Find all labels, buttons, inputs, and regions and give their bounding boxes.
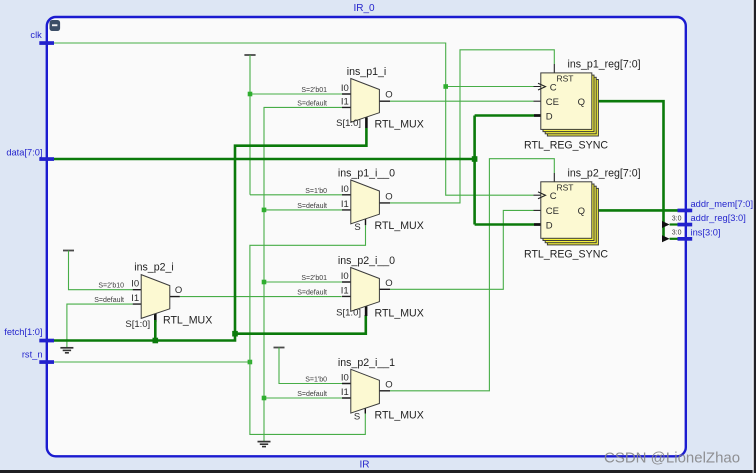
svg-text:S[1:0]: S[1:0] [336,307,361,318]
wire mux4 O to reg2 RST [390,159,554,391]
wire mux2 O to reg1 RST [390,50,554,203]
junction fetch bus corner [232,331,238,337]
register ins_p2_reg[7:0] [524,167,641,260]
port data[7:0] [6,147,54,161]
svg-text:Q: Q [578,97,585,108]
svg-text:addr_reg[3:0]: addr_reg[3:0] [691,213,746,223]
svg-text:ins_p1_i: ins_p1_i [347,66,386,78]
wire rst_n select route to mux2 S and mux4 S [250,225,366,434]
port addr_reg[3:0] [678,213,746,226]
mux ins_p1_i [297,66,424,131]
svg-text:RTL_REG_SYNC: RTL_REG_SYNC [524,139,608,151]
wire mux1 O to reg1 CE [390,100,541,102]
junction B at mux4 I1 [262,396,267,401]
wire data[7:0] bus [54,116,541,225]
svg-text:clk: clk [30,30,42,40]
wire rst_n [54,361,250,363]
module boundary IR_0 [47,17,686,456]
port fetch[1:0] [4,327,54,342]
svg-text:O: O [175,285,182,296]
mux ins_p2_i__0 [297,255,424,320]
svg-text:CE: CE [546,206,559,217]
wire ins_p2_i I1 to ground [67,304,133,347]
svg-text:I1: I1 [341,285,349,296]
svg-text:I0: I0 [341,271,349,282]
junction B at mux2 I1 [262,208,267,213]
svg-text:D: D [546,111,553,122]
svg-text:I0: I0 [341,184,349,195]
power T1 constant [244,54,255,56]
port rst_n [22,350,54,364]
svg-text:S[1:0]: S[1:0] [125,319,150,330]
wire reg2 Q bus to addr_mem [592,209,679,212]
wire default net (vertical B to ground) [264,107,342,441]
svg-text:RST: RST [557,74,574,84]
junction rst_n to select route [248,360,253,365]
svg-text:RTL_MUX: RTL_MUX [375,119,424,131]
svg-text:ins_p2_i__0: ins_p2_i__0 [338,255,395,267]
junction B at mux3 I0 [262,280,267,285]
svg-text:S: S [354,222,360,233]
svg-text:I1: I1 [131,293,139,304]
svg-text:IR_0: IR_0 [353,3,375,14]
svg-text:S=default: S=default [297,391,327,398]
wire clk net [54,43,541,195]
port clk [30,30,54,45]
svg-text:S=default: S=default [297,100,327,107]
svg-text:I0: I0 [341,373,349,384]
mux ins_p1_i__0 [297,168,424,233]
svg-text:ins_p1_i__0: ins_p1_i__0 [338,168,395,180]
wire mux3 O to reg2 CE [390,210,541,289]
svg-text:I1: I1 [341,97,349,108]
svg-text:ins_p2_i: ins_p2_i [134,261,173,273]
svg-text:O: O [385,379,392,390]
svg-text:CSDN @LionelZhao: CSDN @LionelZhao [604,450,740,467]
svg-text:Q: Q [578,206,585,217]
svg-text:I0: I0 [341,83,349,94]
svg-text:rst_n: rst_n [22,350,43,360]
power T2 constant [63,250,74,252]
svg-text:3:0: 3:0 [672,215,682,222]
port addr_mem[7:0] [678,199,754,213]
wire reg1 Q bus [592,101,664,241]
svg-text:O: O [385,90,392,101]
port ins[3:0] [678,228,721,241]
svg-text:fetch[1:0]: fetch[1:0] [4,327,42,337]
svg-text:RST: RST [557,183,574,193]
svg-text:S[1:0]: S[1:0] [336,118,361,129]
ground GND2 [258,442,271,447]
svg-text:C: C [550,191,557,202]
svg-text:IR: IR [360,460,370,471]
svg-text:S=2'b01: S=2'b01 [301,275,327,282]
svg-text:C: C [550,82,557,93]
svg-text:RTL_REG_SYNC: RTL_REG_SYNC [524,248,608,260]
ground GND1 [60,348,73,353]
svg-text:ins[3:0]: ins[3:0] [691,228,721,238]
right edge divider [753,0,756,473]
svg-text:ins_p2_i__1: ins_p2_i__1 [338,357,395,369]
junction data bus to register D [472,156,478,162]
svg-text:addr_mem[7:0]: addr_mem[7:0] [691,199,754,209]
power T3 constant [274,347,285,349]
svg-text:CE: CE [546,97,559,108]
svg-text:I1: I1 [341,387,349,398]
collapse button [50,20,61,31]
wire ins_p2_i O to mux3 I1 [180,296,342,298]
junction fetch bus to ins_p2_i S [153,338,159,344]
svg-text:O: O [385,191,392,202]
svg-text:S=default: S=default [297,289,327,296]
svg-text:S=default: S=default [297,203,327,210]
wire T3 to mux4 I0 [279,348,342,384]
svg-text:O: O [385,278,392,289]
svg-text:RTL_MUX: RTL_MUX [163,315,212,327]
svg-text:I1: I1 [341,199,349,210]
node IR bottom label [360,460,370,471]
svg-text:RTL_MUX: RTL_MUX [375,220,424,232]
svg-text:RTL_MUX: RTL_MUX [375,308,424,320]
svg-text:S: S [354,412,360,423]
svg-text:I0: I0 [131,279,139,290]
svg-text:ins_p1_reg[7:0]: ins_p1_reg[7:0] [568,59,641,71]
register ins_p1_reg[7:0] [524,59,641,152]
svg-text:D: D [546,220,553,231]
svg-text:S=default: S=default [94,297,124,304]
watermark [604,450,740,467]
bottom dark strip [0,470,756,473]
bus tap 3:0 to addr_reg [662,215,682,228]
wire const T1 to mux I0 pins [250,55,342,195]
svg-text:RTL_MUX: RTL_MUX [375,409,424,421]
svg-text:data[7:0]: data[7:0] [6,147,42,157]
svg-text:ins_p2_reg[7:0]: ins_p2_reg[7:0] [568,167,641,179]
junction clk to reg1 C [443,84,448,89]
node IR_0 top label [353,3,375,14]
svg-text:S=1'b0: S=1'b0 [305,188,327,195]
svg-text:S=2'b10: S=2'b10 [98,283,124,290]
wire fetch[1:0] bus [54,128,366,341]
mux ins_p2_i [94,261,212,340]
mux ins_p2_i__1 [297,357,424,423]
junction T1 net at mux1 I0 [248,92,253,97]
svg-text:S=1'b0: S=1'b0 [305,377,327,384]
bus tap 3:0 to ins [662,230,682,243]
svg-text:3:0: 3:0 [672,230,682,237]
wire T2 to ins_p2_i I0 [69,251,133,290]
svg-text:S=2'b01: S=2'b01 [301,87,327,94]
